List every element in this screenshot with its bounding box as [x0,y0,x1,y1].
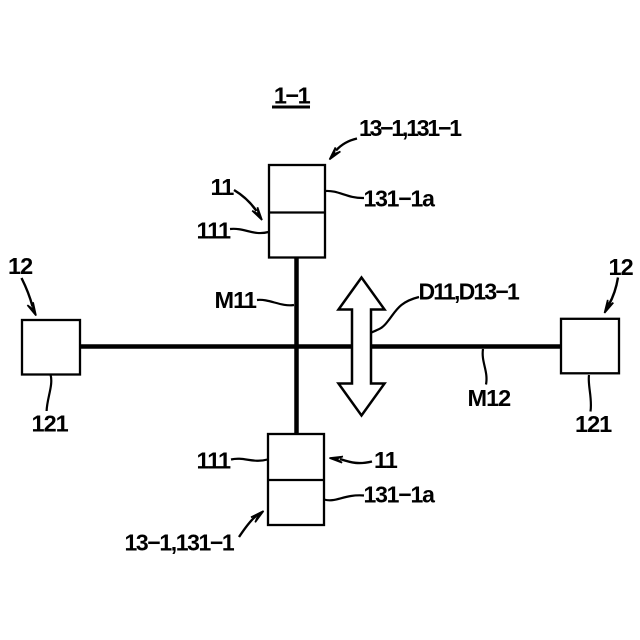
wire horizontal M11/M12 shaft [79,344,562,349]
leader arrow 12 to left box [22,278,37,316]
double-headed arrow D11,D13-1 [339,278,385,416]
svg-text:11: 11 [374,447,398,473]
box top unit 13-1,131-1 [269,165,325,258]
leader line D11 to double arrow [372,297,420,333]
title 1-1 [272,83,311,109]
svg-text:121: 121 [575,411,612,437]
leader arrow to bottom box [239,511,264,537]
box bottom unit 13-1,131-1 [268,434,324,525]
wire vertical shaft [294,256,299,435]
svg-text:131−1a: 131−1a [364,482,436,508]
svg-text:12: 12 [8,253,33,279]
svg-text:D11,D13−1: D11,D13−1 [419,279,521,305]
svg-text:13−1,131−1: 13−1,131−1 [125,530,235,556]
svg-text:131−1a: 131−1a [364,186,436,212]
svg-text:13−1,131−1: 13−1,131−1 [359,115,462,141]
svg-text:111: 111 [197,448,232,474]
svg-text:111: 111 [197,218,232,244]
leader line M12 to horizontal wire [483,349,487,385]
leader line from top box to 131-1a [325,191,364,198]
svg-text:12: 12 [609,254,634,280]
svg-text:11: 11 [211,174,235,200]
leader arrow to top box [330,139,358,160]
leader line left box to 121 [47,375,52,412]
svg-text:1−1: 1−1 [274,83,311,109]
leader line 111 to bottom box [231,459,268,461]
leader line right box to 121 [589,375,591,412]
leader line bottom box to 131-1a [324,495,364,500]
leader line M11 to vertical wire [257,300,294,305]
leader arrow 11 to top box [234,190,262,220]
leader line 111 to top box [230,229,269,233]
box left unit 12 [22,320,80,375]
leader arrow 11 to bottom box [330,457,373,464]
box right unit 12 [561,319,619,374]
svg-text:121: 121 [32,411,69,437]
svg-text:M11: M11 [215,287,257,313]
leader arrow 12 to right box [605,278,619,314]
svg-text:M12: M12 [468,385,512,411]
